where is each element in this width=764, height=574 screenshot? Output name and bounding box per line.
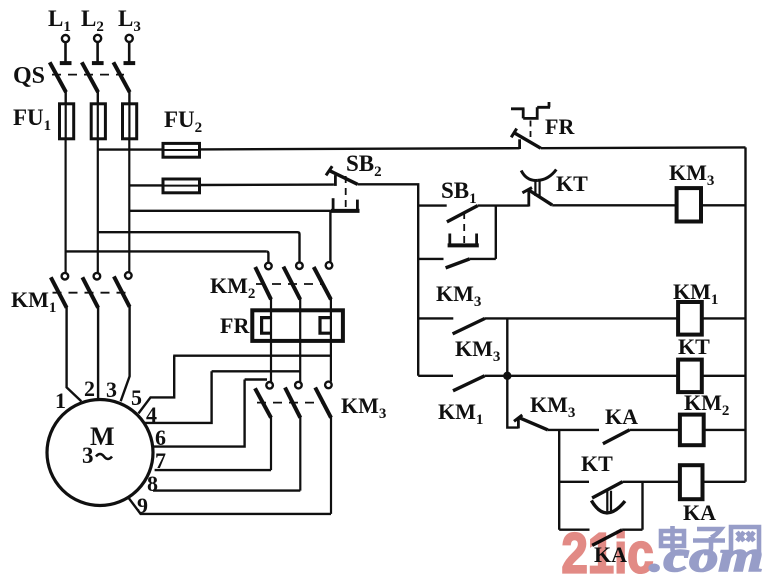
branch A wire: rail to SB1 bbox=[418, 204, 447, 206]
contact KM3 selfhold blade bbox=[446, 259, 470, 268]
contactor KM2 linkage dashed bbox=[256, 283, 324, 285]
wire FR internal pole3 bbox=[330, 311, 332, 341]
wire terminal4 line: motor to riser bbox=[144, 371, 212, 423]
fuse FU1 pole1 body bbox=[60, 104, 74, 139]
svg-text:7: 7 bbox=[155, 448, 166, 473]
pushbutton SB1 blade bbox=[447, 206, 478, 222]
wire KM3 pole2 down to terminal8 line bbox=[299, 416, 301, 490]
wire KA coil to right rail bbox=[703, 481, 746, 483]
pushbutton SB2 NC stop bar bbox=[334, 175, 337, 186]
wire feed to KM2 pole2 from phase2 bbox=[98, 231, 298, 233]
contactor KM3 linkage dashed bbox=[257, 402, 325, 404]
contactor KM2 blade pole1 bbox=[255, 267, 271, 299]
fuse FU1 pole2 wire through bbox=[97, 104, 99, 139]
wire FR contact to right rail top corner bbox=[541, 146, 746, 149]
relay KT2 delayed blade bbox=[592, 482, 622, 498]
wire KM3 selfhold to right vertical bbox=[470, 258, 496, 260]
pushbutton SB2 NC blade bbox=[329, 170, 358, 184]
wire KM3 pole3 down to terminal9 line bbox=[330, 416, 332, 514]
pushbutton SB2 linkage dashed bbox=[345, 176, 347, 210]
wire KM3 pole1 down to terminal7 line bbox=[270, 416, 272, 470]
node L2 terminal circle bbox=[94, 35, 101, 42]
wire FU2b to SB2 bbox=[200, 183, 334, 186]
wire phase1 bus vertical bbox=[64, 139, 66, 273]
svg-text:4: 4 bbox=[146, 402, 157, 427]
fuse FU1 pole3 wire through bbox=[128, 104, 130, 139]
pushbutton SB2 NO hook left bbox=[332, 198, 335, 211]
svg-text:KT: KT bbox=[556, 171, 588, 196]
switch QS blade pole1 bbox=[50, 62, 66, 92]
wire KM2 pole1 to FR bbox=[270, 298, 272, 311]
watermark char dian bbox=[661, 526, 687, 554]
coil KT bbox=[678, 360, 702, 393]
watermark char wang bbox=[731, 527, 759, 554]
wire KM3 interlock2 to KA contact bbox=[548, 429, 599, 431]
thermal relay FR NC blade bbox=[514, 133, 541, 149]
fuse FU2b wire through bbox=[163, 185, 200, 187]
coil KM1 bbox=[678, 302, 702, 335]
wire KM3 coil to right rail bbox=[701, 204, 746, 206]
contactor KM1 blade pole2 bbox=[82, 277, 98, 307]
node L3 terminal circle bbox=[126, 35, 133, 42]
watermark char zi bbox=[693, 529, 725, 553]
wire feed to KM2 pole1 from phase1 bbox=[66, 250, 267, 252]
node L1 terminal circle bbox=[62, 35, 69, 42]
wire KM1 interlock to KT coil bbox=[485, 375, 678, 377]
watermark 21ic bbox=[562, 522, 764, 574]
svg-text:FR: FR bbox=[545, 114, 575, 139]
relay KT top contact barb bbox=[522, 188, 532, 193]
contact KM1 interlock blade bbox=[453, 376, 485, 391]
contact KA NO blade top bbox=[603, 430, 630, 444]
wire horizontal link terminal6 riser to KM3 pole1 circle bbox=[245, 378, 267, 380]
svg-text:9: 9 bbox=[137, 493, 148, 518]
switch QS blade pole3 bbox=[113, 62, 129, 92]
pushbutton SB1 NO hook left bbox=[448, 234, 451, 246]
relay KT2 delay stem double line bbox=[607, 491, 611, 512]
pushbutton SB1 NO hook right bbox=[475, 234, 478, 246]
contactor KM2 blade pole2 bbox=[283, 267, 300, 300]
wire QS to FU1 pole2 bbox=[97, 91, 99, 105]
contactor KM1 pole2 circle bbox=[94, 273, 101, 280]
thermal relay FR heater box bbox=[252, 310, 343, 341]
svg-text:FR: FR bbox=[220, 313, 250, 338]
wire terminal6 line: motor to riser bbox=[153, 380, 245, 447]
wire KT coil to right rail bbox=[702, 375, 746, 377]
wire from feed3 down to KM2 pole3 bbox=[329, 211, 331, 263]
switch QS fixed bar pole1 bbox=[60, 61, 72, 65]
svg-text:3: 3 bbox=[106, 377, 117, 402]
wire KM3 interlock to KM1 coil bbox=[485, 317, 678, 319]
svg-text:KA: KA bbox=[605, 404, 638, 429]
wire corner down to KM2 pole1 bbox=[266, 251, 268, 262]
fuse FU1 pole1 wire through bbox=[65, 104, 67, 139]
contactor KM1 blade pole3 bbox=[114, 276, 130, 306]
wire corner down to KM2 pole2 bbox=[298, 232, 300, 262]
contact KA2 NO blade bottom bbox=[592, 530, 622, 546]
wire right rail bbox=[744, 147, 746, 481]
contactor KM3 blade pole1 bbox=[255, 388, 271, 417]
contactor KM1 blade pole1 bbox=[51, 277, 67, 307]
contact KM3 interlock2 blade bbox=[519, 417, 548, 430]
wire KT contact to KM3 coil bbox=[552, 204, 676, 206]
thermal relay FR NC barb bbox=[511, 129, 517, 138]
contactor KM3 pole1 circle bbox=[266, 382, 273, 389]
wire FR internal pole2 bbox=[299, 311, 301, 341]
wire block bottom branch right bbox=[622, 529, 642, 531]
contactor KM3 pole3 circle bbox=[325, 382, 332, 389]
fuse FU2a wire through bbox=[163, 149, 200, 151]
wire KM2 pole2 to FR bbox=[299, 298, 301, 311]
contactor KM2 pole1 circle bbox=[265, 263, 272, 270]
wire feed 3 from phase3 to SB2 lower contact bbox=[129, 210, 332, 212]
contactor KM3 blade pole3 bbox=[315, 388, 331, 418]
node junction dot on branch D bbox=[503, 372, 511, 380]
branch B wire: rail to KM3 selfhold bbox=[418, 258, 443, 260]
svg-text:2: 2 bbox=[84, 376, 95, 401]
wire terminal7 line to motor bbox=[155, 469, 271, 471]
motor M circle bbox=[47, 400, 153, 506]
thermal relay FR NC contact nub bbox=[518, 139, 521, 149]
wire FR internal pole1 bbox=[270, 311, 272, 341]
svg-text:M: M bbox=[90, 422, 115, 451]
wire horizontal link terminal4 riser to FR pole2 bbox=[212, 370, 301, 372]
contactor KM2 pole3 circle bbox=[326, 262, 333, 269]
wire FR pole2 down to KM3 pole2 bbox=[299, 341, 301, 382]
thermal relay FR actuator symbol bbox=[511, 102, 550, 118]
pushbutton SB1 NO bridge bar bbox=[448, 243, 479, 247]
thermal relay FR heater bracket left bbox=[262, 318, 271, 334]
node corner terminal5 riser bbox=[173, 356, 175, 359]
switch QS blade pole2 bbox=[82, 62, 98, 92]
svg-text:.com: .com bbox=[649, 533, 764, 574]
contact KM3 interlock2 barb bbox=[514, 415, 522, 421]
svg-text:1: 1 bbox=[55, 388, 66, 413]
pushbutton SB1 linkage dashed bbox=[463, 212, 465, 243]
switch QS fixed bar pole2 bbox=[92, 61, 104, 65]
svg-text:8: 8 bbox=[147, 471, 158, 496]
wire terminal5 riser: motor diag to horizontal then up bbox=[139, 358, 175, 414]
wire block left vertical bbox=[558, 430, 560, 530]
contactor KM2 pole2 circle bbox=[296, 262, 303, 269]
wire QS to FU1 pole3 bbox=[128, 91, 130, 105]
fuse FU1 pole3 body bbox=[123, 104, 137, 139]
wire KT2 contact to KA coil bbox=[623, 481, 680, 483]
wire block bottom branch left bbox=[559, 529, 589, 531]
wire KM2 coil to right rail bbox=[704, 429, 746, 431]
thermal relay FR heater bracket right bbox=[320, 318, 331, 334]
svg-text:5: 5 bbox=[131, 385, 142, 410]
fuse FU1 pole2 body bbox=[91, 104, 105, 139]
contactor KM3 blade pole2 bbox=[285, 388, 300, 418]
wire block top branch to KT2 contact bbox=[559, 481, 589, 483]
switch QS linkage dashed line bbox=[52, 74, 124, 76]
svg-text:KA: KA bbox=[683, 500, 716, 525]
fuse FU2a body bbox=[163, 143, 200, 157]
pushbutton SB2 NC blade barb bbox=[326, 166, 332, 175]
relay KT top delay cup left arc bbox=[521, 171, 537, 181]
wire KM1 pole1 to motor terminal 1 bbox=[67, 307, 82, 402]
contactor KM1 pole3 circle bbox=[125, 272, 132, 279]
wire terminal9 line to motor diagonal bbox=[128, 498, 331, 514]
wire phase2 bus vertical bbox=[97, 139, 99, 273]
svg-text:6: 6 bbox=[155, 425, 166, 450]
wire horizontal link terminal5 to FR pole3 bbox=[173, 355, 331, 357]
wire SB2 to left rail corner bbox=[358, 184, 419, 375]
svg-text:KT: KT bbox=[678, 334, 710, 359]
relay KT top delay stem double line bbox=[535, 181, 539, 196]
pushbutton SB2 NO bridge bar bbox=[331, 209, 360, 213]
branch D wire: rail to KM1 interlock bbox=[418, 375, 453, 377]
wire L2 stem bbox=[96, 42, 99, 61]
fuse FU2b body bbox=[163, 179, 200, 193]
coil KM2 bbox=[680, 415, 704, 446]
wire KM2 pole3 to FR bbox=[330, 298, 332, 311]
wire control feed 2 from phase3 to FU2b bbox=[129, 184, 163, 186]
contact KM3 interlock2 nub bbox=[517, 417, 520, 428]
relay KT top contact blade bbox=[530, 191, 553, 206]
branch C wire: rail to KM3 interlock bbox=[418, 317, 453, 319]
contactor KM3 pole2 circle bbox=[295, 382, 302, 389]
contact KM3 interlock blade bbox=[453, 318, 485, 334]
wire FR pole1 down to KM3 pole1 bbox=[270, 341, 272, 382]
wire L1 stem bbox=[64, 42, 67, 61]
wire phase3 bus vertical bbox=[128, 139, 130, 273]
contactor KM2 blade pole3 bbox=[314, 267, 331, 299]
watermark .com bbox=[649, 533, 764, 574]
wire KM1 pole2 to motor terminal 2 bbox=[97, 307, 99, 401]
coil KM3 bbox=[677, 188, 701, 221]
pushbutton SB2 NO hook right bbox=[356, 200, 359, 212]
contactor KM1 linkage dashed bbox=[53, 292, 127, 294]
wire FR pole3 down to KM3 pole3 bbox=[330, 341, 332, 382]
switch QS fixed bar pole3 bbox=[124, 61, 136, 65]
svg-text:QS: QS bbox=[13, 63, 45, 89]
relay KT2 delay cup arc bbox=[591, 501, 625, 513]
wire terminal8 line to motor bbox=[153, 489, 300, 491]
wire SB1 to KT contact bbox=[478, 204, 529, 206]
wire SB1 block right vertical bbox=[495, 206, 497, 259]
wire block right vertical bbox=[641, 482, 643, 530]
svg-text:KT: KT bbox=[581, 451, 613, 476]
wire control feed 1 from phase2 to FU2a bbox=[98, 148, 163, 150]
wire descender from branch C to KM2 branch bbox=[507, 318, 518, 427]
svg-text:3: 3 bbox=[82, 443, 94, 468]
contactor KM1 pole1 circle bbox=[62, 273, 69, 280]
wire KM1 pole3 to motor terminal 3 bbox=[121, 306, 130, 402]
wire FU2a to FR contact bbox=[200, 148, 520, 149]
wire KA contact to KM2 coil bbox=[630, 429, 680, 431]
wire L3 stem bbox=[128, 42, 131, 61]
svg-text:KA: KA bbox=[594, 542, 627, 567]
coil KA bbox=[680, 465, 703, 499]
relay KT top delay cup right arc bbox=[537, 170, 556, 181]
wire QS to FU1 pole1 bbox=[64, 91, 66, 105]
wire KM1 coil to right rail bbox=[702, 317, 746, 319]
thermal relay FR linkage dashed bbox=[530, 121, 532, 142]
relay KT top contact nub bbox=[527, 190, 530, 207]
